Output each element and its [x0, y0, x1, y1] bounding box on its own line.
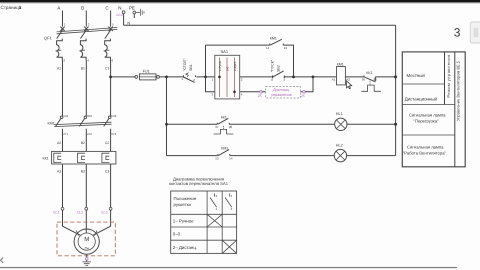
legend column Управление Вентилятором (rotated) — [455, 60, 460, 121]
contactor KM1 tie bar — [54, 122, 111, 126]
contactor KM1 pole A — [56, 114, 69, 152]
SA1 contact dot pos2 — [233, 91, 236, 94]
svg-text:4Т2: 4Т2 — [87, 132, 92, 136]
svg-text:B: B — [81, 6, 84, 11]
terminal circle A — [61, 207, 64, 210]
svg-text:А2: А2 — [57, 141, 61, 145]
svg-text:3: 3 — [454, 26, 461, 40]
wire label A2 — [57, 141, 61, 145]
wire B KK1 to motor — [84, 164, 89, 233]
lamp row 1 wire left — [167, 123, 218, 125]
svg-text:Дистанционный: Дистанционный — [405, 97, 438, 102]
svg-text:Положение: Положение — [174, 196, 197, 201]
wire label B3 — [81, 170, 85, 174]
svg-text:КК1: КК1 — [43, 156, 49, 160]
wire PE — [133, 11, 135, 19]
SA1 diagram header contact 3-4 — [225, 194, 233, 212]
SA1 pin 3 — [212, 92, 214, 96]
motor ground terminal circle (violet) — [85, 258, 88, 261]
svg-text:Сигнальная лампа: Сигнальная лампа — [407, 145, 444, 150]
auxiliary contact KM1 53-54 — [215, 147, 232, 161]
svg-text:FU1: FU1 — [143, 69, 150, 73]
signal lamp HL1 — [335, 112, 347, 131]
lamp row 1 wire right — [347, 123, 396, 125]
svg-text:КК1: КК1 — [366, 71, 372, 75]
legend table frame — [402, 52, 465, 167]
svg-text:6Т3: 6Т3 — [111, 132, 116, 136]
breaker QF1 label — [44, 36, 53, 41]
bottom status bar line — [0, 267, 457, 268]
earth symbol PE — [136, 9, 144, 16]
lamp row 2 wire middle — [230, 155, 335, 157]
stop button SB1 label (rotated) — [183, 58, 193, 71]
svg-text:"Работа Вентилятора": "Работа Вентилятора" — [403, 151, 447, 156]
svg-text:Сигнальная лампа: Сигнальная лампа — [409, 113, 446, 118]
stop button SB1 contact — [181, 73, 195, 83]
wire label C1 — [105, 67, 109, 71]
svg-text:96: 96 — [374, 77, 378, 81]
svg-text:1– Ручное: 1– Ручное — [173, 219, 194, 224]
svg-text:PE: PE — [129, 6, 135, 11]
terminal circle C — [109, 207, 112, 210]
remote reference dashed box — [262, 86, 302, 98]
svg-text:25: 25 — [300, 94, 305, 98]
SA1 diagram row 2 0-0 — [173, 232, 181, 237]
auxiliary contact KM1 13-14 — [266, 37, 287, 51]
SA1 position line 1 — [218, 58, 222, 98]
mouse cursor — [347, 81, 352, 89]
vertical feed wire to lamp rows — [166, 77, 168, 156]
node N join coil — [394, 75, 397, 78]
svg-text:2Т1: 2Т1 — [63, 132, 68, 136]
svg-text:Местный: Местный — [407, 73, 426, 78]
thermal contact KK1 aux 97-98 — [214, 116, 234, 134]
thermal relay heater B — [78, 153, 85, 162]
breaker QF1 pole C — [105, 23, 114, 63]
svg-text:Дистанц.: Дистанц. — [272, 88, 290, 92]
svg-text:КМ1: КМ1 — [270, 37, 277, 41]
wire C QF1 to KM1 — [110, 61, 112, 117]
svg-text:управление: управление — [270, 93, 292, 97]
node lamp row 1 tap — [165, 123, 168, 126]
N bus horizontal — [124, 24, 396, 26]
wire C KK1 to motor — [93, 164, 111, 236]
wire fuse to feed node — [159, 76, 183, 78]
svg-text:КМ1: КМ1 — [48, 122, 55, 126]
wire N — [123, 11, 125, 26]
wire A KK1 to motor — [63, 164, 81, 236]
wire SB2 to hold node — [284, 76, 313, 78]
start button SB2 label (rotated) — [271, 59, 281, 72]
svg-text:Х1:4: Х1:4 — [115, 13, 123, 17]
selector switch SA1 label — [221, 49, 229, 54]
svg-text:Х1:1: Х1:1 — [52, 210, 60, 214]
SA1 diagram X mark row1 — [207, 214, 222, 227]
terminal ref B (violet) — [76, 210, 84, 214]
lamp row 1 wire middle — [229, 123, 334, 125]
remote line terminal right (violet) — [300, 91, 305, 99]
node label N on bus — [127, 21, 130, 26]
motor M1 — [74, 229, 99, 254]
terminal circle PE — [133, 11, 136, 14]
wire label A1 — [57, 67, 61, 71]
contactor coil KM1 — [313, 63, 364, 85]
svg-text:рукоятки: рукоятки — [174, 202, 192, 207]
SA1 diagram header Положение рукоятки — [174, 196, 197, 207]
legend cell Дистанционный — [405, 97, 438, 102]
signal lamp HL2 — [334, 143, 346, 161]
breaker QF1 tie bar — [57, 28, 118, 34]
thermal relay KK1 label — [43, 156, 49, 160]
wire stop to SA1 node — [197, 76, 215, 78]
svg-text:A: A — [57, 6, 60, 11]
svg-text:Х1:2: Х1:2 — [76, 210, 84, 214]
SA1 diagram table frame — [171, 191, 237, 253]
label PE — [129, 6, 135, 11]
SA1 contact dot pos1 — [218, 76, 221, 79]
svg-text:QF1: QF1 — [44, 36, 53, 41]
node remote join — [312, 76, 315, 79]
SA1 diagram row 3 Дистанц — [173, 245, 197, 250]
SA1 position line 0 — [225, 58, 229, 98]
node feed junction — [165, 76, 168, 79]
page tab label "Страница 1" — [1, 5, 22, 10]
svg-text:53: 53 — [215, 156, 219, 160]
phase label A — [57, 6, 60, 11]
legend cell Местный — [407, 73, 426, 78]
terminal ref N (violet) — [115, 13, 123, 17]
thermal contact KK1 (NC) — [361, 71, 395, 91]
SA1 branch vertical (to hold line and pin 3) — [206, 45, 215, 92]
lamp row 2 wire right — [347, 155, 396, 157]
SA1 pin 2 — [240, 77, 273, 82]
svg-text:0-0: 0-0 — [225, 66, 229, 71]
wire phase A top — [62, 11, 64, 27]
wire A QF1 to KM1 — [62, 61, 64, 117]
wire label B2 — [81, 141, 85, 145]
wire label C3 — [105, 170, 109, 174]
svg-text:SA1: SA1 — [221, 49, 229, 54]
svg-text:В1: В1 — [81, 67, 85, 71]
SA1 pin 1 — [212, 77, 214, 81]
contactor KM1 pole B — [79, 114, 92, 152]
node N lamp row 1 — [394, 123, 397, 126]
svg-text:98: 98 — [229, 125, 233, 129]
svg-text:А3: А3 — [57, 170, 61, 174]
svg-text:25: 25 — [257, 94, 262, 98]
top title bar — [0, 0, 480, 3]
wire label C2 — [105, 141, 109, 145]
terminal circle N — [122, 11, 125, 14]
svg-text:HL2: HL2 — [336, 143, 343, 147]
N vertical drop — [395, 25, 397, 155]
contactor KM1 pole C — [104, 114, 117, 152]
SA1 diagram title — [169, 177, 229, 187]
legend cell lamp Перегрузка — [409, 113, 446, 124]
UI zoom digit — [454, 26, 461, 40]
SA1 diagram X mark row3 — [222, 240, 236, 253]
svg-text:"Перегрузка": "Перегрузка" — [414, 119, 440, 124]
svg-text:95: 95 — [362, 77, 366, 81]
svg-text:0–0: 0–0 — [173, 232, 181, 237]
svg-text:С1: С1 — [105, 67, 109, 71]
lamp row 2 wire left — [167, 155, 218, 157]
SA1 pin 4 wire (remote line) — [240, 92, 260, 97]
remote line to node — [305, 77, 313, 92]
svg-text:Управление Вентилятором ВЕ.5: Управление Вентилятором ВЕ.5 — [455, 60, 460, 121]
breaker QF1 pole B — [80, 23, 89, 63]
svg-text:С2: С2 — [105, 141, 109, 145]
contactor KM1 label — [48, 122, 55, 126]
svg-text:N: N — [127, 21, 130, 26]
svg-text:А1: А1 — [57, 67, 61, 71]
left edge chevron — [1, 258, 4, 263]
svg-text:"СТОП": "СТОП" — [183, 58, 187, 71]
svg-text:А1: А1 — [332, 78, 336, 82]
hold line horizontal — [206, 45, 294, 77]
svg-text:HL1: HL1 — [336, 112, 343, 116]
fuse FU1 — [135, 69, 160, 80]
svg-text:13: 13 — [284, 46, 288, 50]
svg-text:3Л2: 3Л2 — [87, 114, 92, 118]
terminal circle B — [85, 207, 88, 210]
wire B QF1 to KM1 — [85, 61, 87, 117]
terminal ref C (violet) — [100, 210, 108, 214]
remote line terminal left (violet) — [257, 91, 262, 99]
svg-text:С3: С3 — [105, 170, 109, 174]
SA1 diagram row 1 Ручное — [173, 219, 194, 224]
UI corner button — [470, 22, 480, 43]
legend cell lamp Работа Вентилятора — [403, 145, 447, 156]
svg-text:N: N — [118, 6, 121, 11]
label N — [118, 6, 121, 11]
svg-text:"ПУСК": "ПУСК" — [271, 59, 275, 72]
svg-text:SB2: SB2 — [276, 65, 280, 72]
svg-text:1-Ручн.: 1-Ручн. — [218, 61, 222, 71]
ground symbol under motor — [82, 260, 91, 265]
wire label A3 — [57, 170, 61, 174]
svg-text:2-Дист.: 2-Дист. — [233, 61, 237, 71]
svg-text:контактов переключателя SA1: контактов переключателя SA1 — [169, 181, 229, 186]
svg-text:1Л1: 1Л1 — [63, 114, 68, 118]
node SA1 junction — [204, 76, 207, 79]
wire phase C top — [110, 11, 112, 27]
phase label B — [81, 6, 84, 11]
motor ground wire — [86, 254, 88, 257]
thermal relay heater A — [54, 153, 61, 162]
svg-text:1: 1 — [19, 5, 22, 10]
SA1 position line 2 — [233, 58, 237, 98]
motor boundary dashed box — [57, 222, 115, 256]
SA1 diagram header contact 1-2 — [210, 194, 218, 212]
terminal ref A (violet) — [52, 210, 60, 214]
svg-text:97: 97 — [215, 125, 219, 129]
thermal relay heater C — [102, 153, 109, 162]
svg-text:SB1: SB1 — [189, 64, 193, 71]
svg-text:~: ~ — [84, 243, 89, 253]
node C phase tap — [109, 76, 112, 79]
phase label C — [105, 6, 109, 11]
legend column Режим управления (rotated) — [446, 54, 451, 97]
svg-text:2– Дистанц.: 2– Дистанц. — [173, 245, 197, 250]
svg-text:М: М — [84, 236, 89, 243]
svg-text:В2: В2 — [81, 141, 85, 145]
svg-text:Режим управления: Режим управления — [446, 54, 451, 97]
svg-text:14: 14 — [266, 46, 270, 50]
svg-text:КМ1: КМ1 — [337, 63, 344, 67]
control line C tap to fuse — [112, 76, 135, 78]
thermal relay KK1 body — [52, 151, 116, 164]
wire phase B top — [85, 11, 87, 27]
breaker QF1 pole A — [57, 23, 66, 63]
svg-text:Х1:3: Х1:3 — [100, 210, 108, 214]
svg-text:В3: В3 — [81, 170, 85, 174]
svg-text:5Л3: 5Л3 — [111, 114, 116, 118]
svg-text:КК1: КК1 — [221, 116, 227, 120]
wire label B1 — [81, 67, 85, 71]
node hold join — [292, 76, 295, 79]
selector switch SA1 body — [215, 55, 240, 99]
start button SB2 contact — [271, 71, 285, 82]
svg-text:54: 54 — [229, 156, 233, 160]
